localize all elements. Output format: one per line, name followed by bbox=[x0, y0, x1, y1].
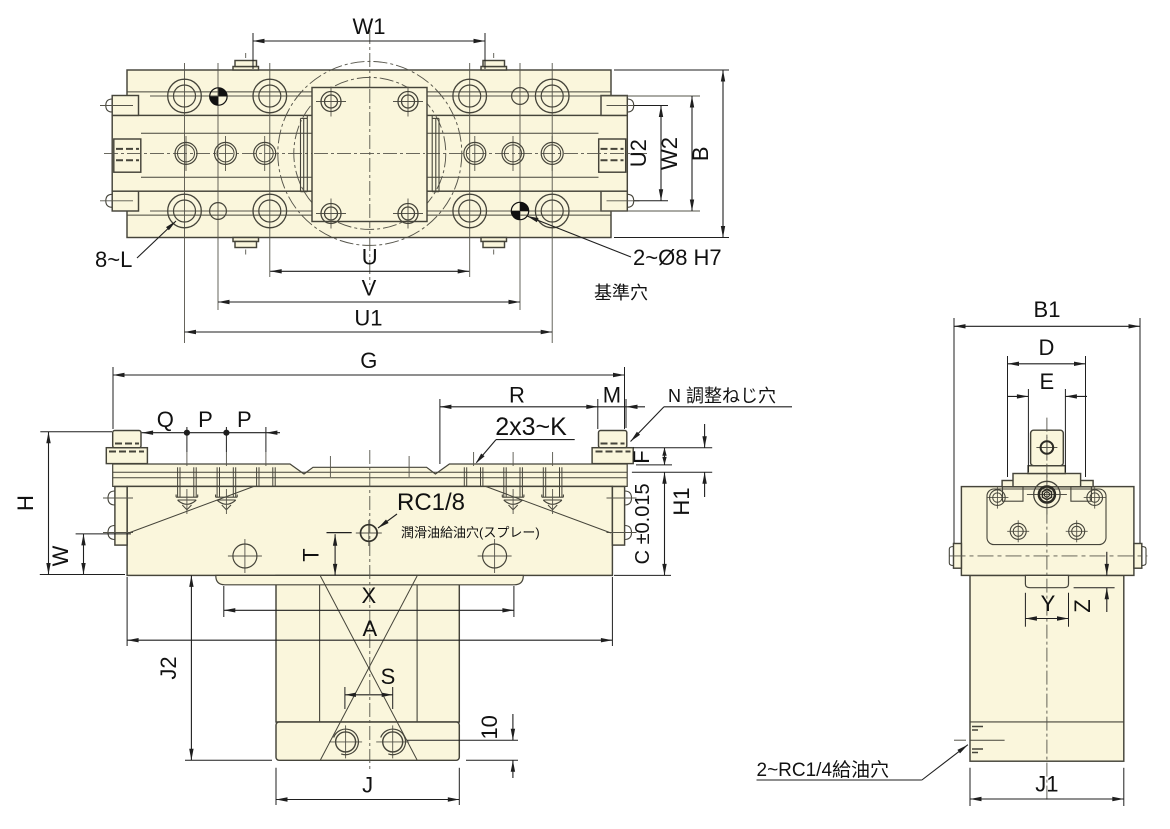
dimension Z bbox=[1074, 587, 1115, 589]
top view horizontal centerline bbox=[104, 152, 648, 154]
mid row hole ticks bbox=[185, 136, 187, 171]
svg-text:A: A bbox=[362, 616, 377, 641]
cap thread dashes right bbox=[601, 443, 625, 445]
svg-text:H: H bbox=[13, 495, 38, 511]
svg-text:U1: U1 bbox=[354, 306, 382, 331]
side view finger top bbox=[1031, 430, 1064, 466]
front view base block bbox=[276, 722, 459, 760]
mid row threaded holes bbox=[175, 142, 197, 164]
front view jaw plate with notched top bbox=[113, 464, 628, 486]
top view left lower tab bbox=[112, 191, 138, 211]
dimension H bbox=[40, 431, 112, 433]
head relief slots bbox=[1003, 487, 1024, 501]
dimension X bbox=[223, 586, 225, 617]
side view port thread marks bbox=[972, 726, 983, 728]
dimension J bbox=[275, 768, 277, 805]
svg-text:2~RC1/4給油穴: 2~RC1/4給油穴 bbox=[757, 759, 890, 781]
dimension W2 bbox=[691, 96, 693, 211]
pitch circle inner bbox=[294, 77, 446, 229]
dimension C bbox=[632, 471, 712, 473]
svg-text:N 調整ねじ穴: N 調整ねじ穴 bbox=[668, 386, 776, 406]
side view horizontal centerline bbox=[950, 555, 1148, 557]
front view flange bbox=[216, 575, 524, 584]
dimension M bbox=[625, 399, 627, 428]
dimension F bbox=[633, 447, 712, 449]
cross diagonals bbox=[320, 576, 417, 760]
center pivot screw bbox=[1027, 494, 1067, 496]
svg-text:H1: H1 bbox=[669, 487, 694, 515]
head lower screws bbox=[1007, 530, 1029, 532]
svg-text:V: V bbox=[362, 276, 377, 301]
jaw slide edges bbox=[306, 115, 308, 191]
dimension T bbox=[327, 532, 352, 534]
side view cylinder body bbox=[970, 575, 1124, 761]
front view left bracket bbox=[115, 487, 127, 546]
plate corner screws bbox=[316, 101, 346, 103]
dimension B1 bbox=[953, 318, 955, 543]
dimension Q P P bbox=[186, 427, 188, 452]
side view stub bbox=[1025, 575, 1068, 587]
top view left upper tab bbox=[112, 96, 138, 116]
datum hole upper bbox=[210, 88, 227, 105]
svg-text:潤滑油給油穴(スプレー): 潤滑油給油穴(スプレー) bbox=[401, 525, 540, 540]
front view plate edge lines bbox=[113, 471, 628, 473]
head upper screws bbox=[986, 497, 1008, 499]
dimension R bbox=[439, 399, 441, 464]
dimension A bbox=[126, 577, 128, 646]
plate centerlines bbox=[314, 152, 425, 154]
front view right end cap bbox=[592, 448, 633, 464]
svg-text:U2: U2 bbox=[626, 139, 651, 167]
dimension S bbox=[344, 687, 346, 709]
small plain holes bbox=[210, 203, 227, 220]
dimension J2 bbox=[185, 759, 272, 761]
top view hole column centerlines bbox=[184, 63, 186, 343]
svg-text:Z: Z bbox=[1070, 599, 1095, 612]
top view body outline bbox=[127, 70, 611, 238]
svg-text:F: F bbox=[629, 450, 654, 463]
svg-text:R: R bbox=[509, 383, 525, 408]
countersunk screw tips bbox=[177, 486, 179, 497]
top view left port box bbox=[114, 139, 141, 172]
top view jaw plate edges bbox=[127, 91, 611, 93]
tab centerline ticks bbox=[245, 53, 247, 58]
front view main block bbox=[127, 486, 612, 575]
RC1/8 lube hole bbox=[356, 532, 382, 534]
top view right lower tab bbox=[601, 191, 627, 211]
front view K hole slots bbox=[177, 467, 179, 486]
svg-text:2x3~K: 2x3~K bbox=[495, 413, 567, 441]
top view row centerlines bbox=[150, 95, 700, 97]
dimension W bbox=[76, 533, 131, 535]
wedge diagonal right bbox=[486, 486, 611, 533]
svg-text:8~L: 8~L bbox=[95, 247, 132, 272]
dimension G bbox=[112, 367, 114, 429]
svg-text:W1: W1 bbox=[353, 14, 386, 39]
top view rail lines bbox=[141, 132, 599, 134]
dimension Y bbox=[1024, 593, 1026, 627]
svg-text:E: E bbox=[1040, 369, 1055, 394]
svg-text:J2: J2 bbox=[156, 656, 181, 679]
top view vertical centerline bbox=[369, 30, 371, 285]
svg-text:W: W bbox=[48, 545, 73, 566]
dimension W1 bbox=[252, 33, 254, 69]
center plate bbox=[312, 88, 427, 222]
front view left end cap bbox=[106, 448, 147, 464]
svg-text:10: 10 bbox=[477, 715, 502, 739]
front view right bracket bbox=[612, 487, 624, 546]
svg-text:M: M bbox=[603, 383, 621, 408]
front view centerline bbox=[369, 450, 371, 770]
svg-text:J: J bbox=[362, 772, 373, 797]
top view slide band bbox=[112, 115, 627, 191]
top view left side screws bbox=[106, 99, 112, 112]
dimension J1 bbox=[969, 768, 971, 806]
top view top tabs bbox=[233, 67, 259, 71]
front view stem inner lines bbox=[319, 575, 321, 722]
svg-text:2~Ø8 H7: 2~Ø8 H7 bbox=[633, 245, 722, 270]
svg-text:B1: B1 bbox=[1034, 297, 1061, 322]
large counterbored holes bbox=[168, 79, 202, 113]
svg-text:RC1/8: RC1/8 bbox=[397, 489, 465, 516]
side view vertical centerline bbox=[1046, 418, 1048, 800]
side view bottom cap line bbox=[970, 721, 1124, 723]
wedge diagonal left bbox=[129, 486, 254, 533]
svg-text:基準穴: 基準穴 bbox=[594, 283, 648, 303]
svg-text:S: S bbox=[381, 664, 396, 689]
finger screw bbox=[1036, 447, 1057, 449]
svg-text:Q: Q bbox=[157, 407, 174, 432]
side view finger tier3 bbox=[1013, 474, 1081, 487]
cap thread dashes left bbox=[115, 443, 139, 445]
base port holes bbox=[329, 741, 362, 743]
svg-text:X: X bbox=[362, 583, 377, 608]
svg-text:C ±0.015: C ±0.015 bbox=[632, 483, 654, 564]
side view finger tier4 bbox=[1002, 481, 1093, 487]
svg-text:G: G bbox=[360, 348, 377, 373]
svg-text:P: P bbox=[237, 407, 252, 432]
dimension 10 bbox=[407, 739, 518, 741]
dimension E bbox=[1027, 389, 1029, 472]
side view left ear tab bbox=[954, 544, 962, 569]
dimension B bbox=[614, 69, 729, 71]
side view finger tier2 bbox=[1028, 466, 1065, 474]
top view right side screws bbox=[627, 99, 633, 112]
side view head block bbox=[961, 487, 1134, 576]
datum hole lower bbox=[511, 202, 528, 219]
svg-text:J1: J1 bbox=[1035, 772, 1058, 797]
side view right ear tab bbox=[1134, 544, 1142, 569]
front view stem bbox=[276, 575, 459, 722]
svg-text:Y: Y bbox=[1041, 591, 1056, 616]
top view right upper tab bbox=[601, 96, 627, 116]
svg-text:U: U bbox=[362, 245, 378, 270]
top view right port box bbox=[599, 139, 626, 172]
svg-text:D: D bbox=[1039, 335, 1055, 360]
center block ticks bbox=[329, 456, 331, 477]
mid block holes bbox=[228, 555, 262, 557]
dimension U bbox=[270, 270, 469, 272]
top view bottom tabs bbox=[233, 238, 259, 242]
dimension U2 bbox=[634, 105, 668, 107]
svg-text:T: T bbox=[299, 548, 324, 561]
dimension D bbox=[1007, 356, 1009, 477]
dimension U1 bbox=[185, 331, 553, 333]
dimension H1 bbox=[704, 424, 706, 448]
side view head panel bbox=[987, 489, 1106, 545]
pitch circle outer bbox=[278, 61, 462, 245]
svg-text:P: P bbox=[198, 407, 213, 432]
dimension V bbox=[218, 301, 520, 303]
